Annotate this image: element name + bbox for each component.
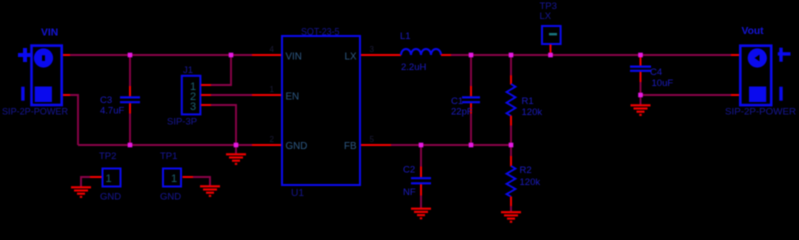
pin J1-1 stub	[201, 84, 211, 86]
svg-text:C1: C1	[451, 96, 463, 107]
svg-text:LX: LX	[345, 52, 357, 63]
connector J1 SIP-3P	[167, 65, 200, 128]
node LX/TP3 junction	[548, 53, 553, 58]
ground (R2)	[501, 212, 521, 222]
wire TP2 to ground	[81, 177, 90, 187]
resistor R2 120k	[507, 145, 541, 212]
test point TP2	[89, 151, 121, 203]
svg-text:GND: GND	[160, 192, 181, 203]
svg-text:3: 3	[370, 45, 375, 54]
svg-text:1: 1	[106, 173, 112, 185]
pin U1 FB (5) stub	[361, 135, 391, 145]
pin Vout- stub	[731, 94, 739, 96]
svg-text:120k: 120k	[522, 107, 543, 118]
svg-text:1: 1	[171, 173, 177, 185]
svg-text:GND: GND	[100, 192, 121, 203]
svg-text:120k: 120k	[520, 177, 541, 188]
wire Vout- net	[641, 94, 732, 96]
node C4/Vout- junction	[638, 93, 643, 98]
pin Vout+ stub	[731, 54, 739, 56]
ground (C2)	[411, 209, 431, 219]
op-amp U1 SOT-23-5 regulator	[282, 27, 360, 199]
svg-text:TP2: TP2	[99, 151, 116, 162]
resistor R1 120k	[507, 55, 543, 145]
svg-text:R2: R2	[520, 165, 532, 176]
svg-text:C4: C4	[650, 67, 662, 78]
wire TP1 to ground	[193, 177, 210, 186]
svg-text:SIP-2P-POWER: SIP-2P-POWER	[725, 107, 796, 118]
svg-text:3: 3	[190, 101, 196, 113]
svg-text:4.7uF: 4.7uF	[100, 106, 124, 117]
test point TP1	[160, 151, 194, 203]
svg-text:SIP-3P: SIP-3P	[167, 117, 197, 128]
wire LX net rail	[451, 54, 731, 56]
node LX/R1 junction	[509, 53, 514, 58]
svg-text:LX: LX	[540, 11, 552, 22]
pin J1-3 stub	[201, 104, 211, 106]
wire FB net rail	[391, 144, 511, 146]
wire C4 to ground	[640, 95, 642, 105]
wire J1 pin3 to GND rail	[211, 105, 236, 145]
test point TP3	[540, 1, 561, 55]
capacitor C4 10uF	[630, 56, 673, 95]
wire VIN net top rail	[70, 54, 252, 56]
wire J1 pin2 to EN	[211, 94, 252, 96]
svg-text:Vout: Vout	[742, 26, 765, 37]
ground (GND rail)	[226, 145, 246, 164]
node GND/C3 junction	[128, 143, 133, 148]
node LX/C4 junction	[638, 53, 643, 58]
pin J1-2 stub	[201, 94, 211, 96]
node FB/C2 junction	[419, 143, 424, 148]
pin U1 LX (3) stub	[361, 45, 401, 55]
svg-text:R1: R1	[522, 96, 534, 107]
pin U1 GND (2) stub	[252, 135, 281, 145]
ground (C4)	[631, 105, 651, 115]
pin VIN+ stub	[63, 54, 71, 56]
svg-text:U1: U1	[291, 188, 304, 199]
svg-text:NF: NF	[403, 187, 416, 198]
ground (TP1)	[200, 186, 220, 196]
wire J1 pin1 to VIN rail	[211, 55, 231, 85]
pin VIN- stub	[63, 94, 71, 96]
svg-text:1: 1	[270, 85, 275, 94]
node FB/R2 junction	[509, 143, 514, 148]
svg-text:EN: EN	[286, 91, 300, 102]
svg-text:FB: FB	[344, 141, 357, 152]
ground (TP2)	[71, 187, 91, 197]
capacitor C2 NF	[403, 145, 431, 209]
svg-text:C2: C2	[403, 165, 415, 176]
svg-text:22pF: 22pF	[451, 107, 473, 118]
svg-text:C3: C3	[100, 95, 112, 106]
capacitor C3	[100, 55, 140, 145]
pin U1 VIN (4) stub	[252, 45, 281, 55]
svg-text:GND: GND	[286, 141, 308, 152]
svg-text:10uF: 10uF	[652, 78, 674, 89]
svg-text:5: 5	[370, 135, 375, 144]
svg-text:4: 4	[270, 45, 275, 54]
connector VIN (SIP-2P-POWER input)	[2, 28, 68, 118]
node VIN/J1 junction	[229, 53, 234, 58]
node GND/J1-3 junction	[234, 143, 239, 148]
svg-text:VIN: VIN	[286, 52, 302, 63]
svg-text:J1: J1	[183, 65, 193, 76]
svg-text:2: 2	[270, 135, 275, 144]
node LX/C1 junction	[469, 53, 474, 58]
node VIN/C3 junction	[128, 53, 133, 58]
pin U1 EN (1) stub	[252, 85, 281, 95]
svg-text:VIN: VIN	[41, 28, 58, 39]
svg-text:SIP-2P-POWER: SIP-2P-POWER	[2, 107, 68, 118]
node FB/C1 junction	[469, 143, 474, 148]
inductor L1 2.2uH	[400, 31, 452, 73]
svg-text:TP1: TP1	[160, 151, 177, 162]
svg-text:2.2uH: 2.2uH	[401, 62, 426, 73]
wire GND rail	[78, 144, 252, 146]
connector Vout (SIP-2P-POWER output)	[725, 26, 796, 118]
wire VIN- down to GND rail	[70, 95, 78, 145]
capacitor C1 22pF	[451, 55, 480, 145]
svg-text:L1: L1	[400, 31, 411, 42]
